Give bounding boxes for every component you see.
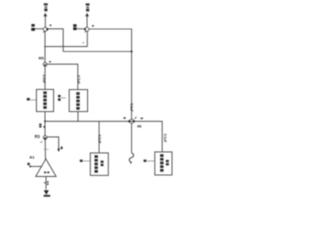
bus y51.5 [63, 51, 131, 53]
wire T6 down [131, 123, 133, 153]
wire to boxA [98, 121, 100, 153]
boxB leader label [144, 160, 147, 162]
svg-text:0.1uF: 0.1uF [98, 135, 102, 144]
R3 upper tick label [44, 126, 46, 128]
supply arrow right [85, 13, 89, 17]
wire R5 right then down to box2 [47, 64, 78, 89]
label blobs left of T9 [73, 24, 76, 30]
terminal arrow b [57, 149, 60, 152]
left column R5 to box1 [44, 66, 46, 89]
supply arrow left [44, 13, 48, 17]
supply label +Eo/n right [86, 3, 90, 11]
boxA leader label [80, 160, 83, 162]
branch b: right and down [47, 137, 59, 149]
wire R3 to opamp apex [44, 139, 46, 159]
box2 bottom wire [77, 112, 79, 122]
op-amp A1 [36, 159, 56, 177]
terminal a dot [29, 165, 31, 167]
output arrow [44, 190, 49, 195]
wire arrow1 to T8 [44, 16, 46, 27]
supply label +Eo/n left [44, 3, 48, 11]
transistor T6 [130, 119, 134, 123]
emitter stub T9 down [86, 31, 88, 47]
squiggle end [129, 153, 133, 163]
box1 bottom wire [44, 112, 46, 122]
wire y46.6 right part [63, 46, 87, 48]
block boxA [90, 153, 108, 176]
wire arrow2 to T9 [86, 16, 88, 27]
svg-text:46: 46 [137, 123, 142, 128]
svg-text:0.1uF: 0.1uF [129, 103, 133, 112]
block box2 [69, 90, 87, 112]
left column upper [44, 31, 46, 62]
base wire into T9 [77, 28, 85, 30]
block box1 [36, 89, 53, 111]
output bar [44, 195, 51, 197]
wire T8 right [48, 29, 63, 52]
leader dash to box2 [61, 97, 66, 99]
bus y121.3 [45, 121, 162, 152]
box1 leader label [27, 98, 30, 101]
transistor R5 node [43, 63, 47, 67]
transistor R3 node [43, 136, 47, 140]
wire T9 right to corner [89, 29, 132, 119]
input a wire [31, 165, 42, 167]
base wire into T8 [35, 28, 43, 30]
left column box1 to R3 [44, 121, 46, 135]
block boxB [155, 152, 172, 175]
svg-text:0.1uF: 0.1uF [163, 134, 167, 143]
svg-text:R5: R5 [39, 56, 45, 61]
junction label below left [39, 124, 41, 128]
svg-text:3.3uF: 3.3uF [42, 75, 46, 84]
box2 leader label [58, 95, 61, 97]
junction dot bus/vertical [131, 51, 133, 53]
wire y46.6 [45, 46, 63, 48]
transistor T8 [43, 27, 47, 31]
svg-text:A1: A1 [29, 154, 35, 159]
transistor T9 [85, 27, 89, 31]
svg-text:R3: R3 [35, 134, 41, 139]
junction dot left [44, 120, 46, 122]
svg-text:0.7uF: 0.7uF [76, 75, 80, 84]
label blobs left of T8 [31, 24, 35, 31]
output wire [45, 176, 47, 189]
